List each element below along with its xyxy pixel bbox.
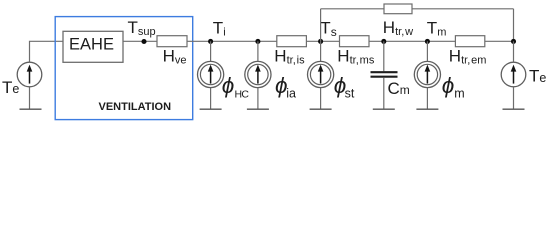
ground (Phi_ia) bbox=[247, 108, 269, 110]
wire: Tm stem to Phi_m bbox=[426, 41, 428, 61]
svg-text:ϕ: ϕ bbox=[442, 73, 455, 98]
wire: EAHE to Hve bbox=[123, 40, 157, 42]
svg-text:st: st bbox=[345, 86, 355, 100]
svg-text:HC: HC bbox=[235, 89, 250, 101]
wire: Htr,em to right junction bbox=[485, 40, 514, 42]
ground (left Te) bbox=[20, 108, 42, 110]
wire: Htr,is to Htr,ms bbox=[306, 40, 339, 42]
node (Phi_ia junction) bbox=[255, 39, 260, 44]
node Tm bbox=[425, 39, 430, 44]
wire: top branch down to right junction bbox=[513, 9, 515, 42]
wire: top branch left bbox=[321, 8, 384, 10]
node Cm junction bbox=[381, 39, 386, 44]
wire: stem to capacitor bbox=[383, 41, 385, 71]
EAHE block bbox=[63, 31, 123, 62]
svg-text:EAHE: EAHE bbox=[69, 35, 114, 53]
capacitor Cm bbox=[371, 71, 398, 73]
source PhiHC (double circle) bbox=[198, 61, 224, 87]
node Ts bbox=[318, 39, 323, 44]
source Te right (single circle) bbox=[501, 62, 526, 87]
wire: Htr,ms to Htr,em bbox=[369, 40, 455, 42]
resistor Htr,w bbox=[384, 4, 412, 14]
wire: top branch right bbox=[412, 8, 514, 10]
ground (right Te) bbox=[503, 108, 525, 110]
svg-text:ϕ: ϕ bbox=[222, 73, 235, 98]
wire: capacitor lower stem bbox=[383, 78, 385, 109]
wire: Ts up to top branch bbox=[320, 9, 322, 42]
source Te left (single circle) bbox=[17, 62, 42, 87]
resistor Htr,em bbox=[455, 36, 484, 47]
wire: Hve to Htr,is bbox=[187, 40, 277, 42]
svg-text:VENTILATION: VENTILATION bbox=[99, 101, 172, 113]
resistor Htr,is bbox=[277, 36, 307, 47]
ground (Phi_m) bbox=[416, 108, 438, 110]
resistor Hve bbox=[157, 36, 187, 47]
node right junction bbox=[511, 39, 516, 44]
ground (PhiHC) bbox=[200, 108, 222, 110]
source Phi_st (double circle) bbox=[308, 61, 334, 87]
node Ti bbox=[208, 39, 213, 44]
wire: Ts stem to Phi_st bbox=[320, 41, 322, 61]
wire: left Te lower stem bbox=[29, 87, 31, 109]
resistor Htr,ms bbox=[340, 36, 370, 47]
ground (Phi_st) bbox=[310, 108, 332, 110]
wire: Ti stem to PhiHC bbox=[210, 41, 212, 61]
ventilation blue box bbox=[55, 17, 193, 120]
node Tsup bbox=[141, 39, 146, 44]
svg-text:m: m bbox=[454, 86, 464, 100]
ground (Cm) bbox=[373, 108, 395, 110]
wire: stem to right Te bbox=[513, 41, 515, 61]
svg-text:ia: ia bbox=[286, 86, 296, 100]
wire: left Te to EAHE bbox=[30, 41, 64, 62]
source Phi_m (double circle) bbox=[414, 61, 440, 87]
wire: stem to Phi_ia bbox=[257, 41, 259, 61]
source Phi_ia (double circle) bbox=[245, 61, 271, 87]
